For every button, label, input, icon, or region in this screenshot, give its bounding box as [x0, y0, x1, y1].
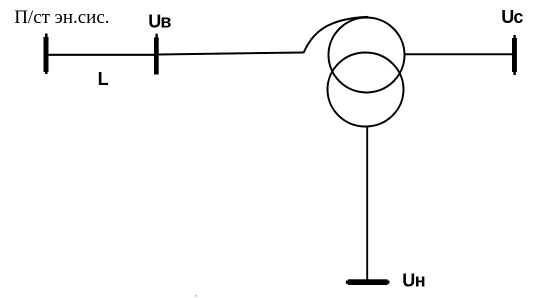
busbar B1 (system substation bus)	[44, 34, 49, 75]
svg-text:Uв: Uв	[148, 11, 171, 31]
busbar B4 (Uн bus, bottom bar)	[346, 279, 390, 285]
svg-text:П/ст эн.сис.: П/ст эн.сис.	[14, 7, 109, 28]
svg-text:Uн: Uн	[402, 271, 425, 291]
wire arc into transformer T1	[304, 17, 369, 53]
transformer T1 primary winding (top circle)	[329, 18, 405, 93]
busbar B3 (Uс bus)	[512, 35, 517, 75]
wire W1 (bus B1 to bus B2)	[48, 54, 155, 56]
svg-text:Uс: Uс	[501, 7, 523, 27]
busbar B2 (Uв bus)	[154, 34, 159, 75]
stray mark	[196, 295, 198, 297]
transformer T1 secondary winding (bottom circle)	[328, 53, 404, 127]
wire W3 (transformer to bus B3)	[405, 53, 513, 55]
wire W2 (bus B2 to transformer)	[159, 53, 304, 55]
wire W4 (transformer to bus B4, vertical)	[366, 126, 368, 280]
svg-text:L: L	[98, 69, 109, 89]
